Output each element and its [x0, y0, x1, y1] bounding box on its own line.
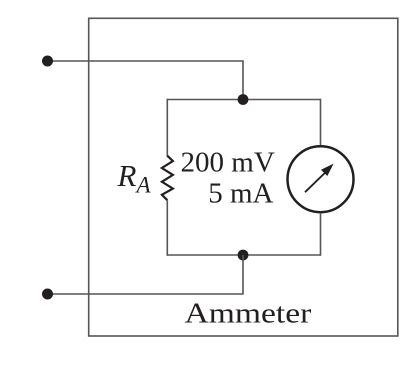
wire: inner bottom rail [167, 254, 320, 256]
meter needle (arrow) [305, 164, 334, 193]
outer box (ammeter enclosure) [89, 18, 398, 336]
top terminal dot [42, 56, 53, 67]
wire: inner top rail [167, 99, 320, 101]
meter M1 (moving-coil meter circle) [288, 146, 354, 212]
svg-text:R: R [117, 158, 137, 193]
node B (bottom junction dot) [238, 250, 249, 261]
bottom terminal dot [42, 289, 53, 300]
wire: right rail upper segment [320, 99, 322, 146]
svg-text:5 mA: 5 mA [208, 178, 273, 210]
wire: bottom terminal to node B [48, 255, 243, 294]
wire: left rail lower segment [166, 200, 168, 256]
wire: right rail lower segment [320, 213, 322, 256]
svg-text:200 mV: 200 mV [181, 146, 275, 178]
wire: top terminal to node A [48, 61, 243, 100]
node A (top junction dot) [238, 94, 249, 105]
svg-text:Ammeter: Ammeter [185, 298, 312, 330]
resistor RA (zigzag) [162, 156, 173, 201]
svg-text:A: A [135, 172, 152, 197]
wire: left rail upper segment [166, 99, 168, 157]
